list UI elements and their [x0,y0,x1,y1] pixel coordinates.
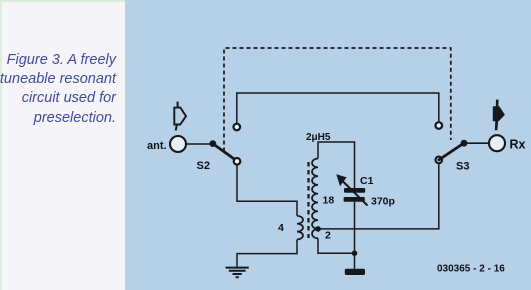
mechanical coupling dashed link S2-S3 [224,48,451,152]
ground (earth) symbol [226,268,249,278]
junction dot C1/secondary/ground [352,250,358,256]
transformer L1 primary winding (4) [297,216,303,240]
svg-text:C1: C1 [360,175,374,187]
svg-text:S3: S3 [456,161,469,173]
wire ant to S2 pole [186,143,211,145]
tap node 2 junction dot [315,226,321,232]
wire tap to S3 contact [320,163,439,229]
svg-text:030365 - 2 - 16: 030365 - 2 - 16 [437,264,505,275]
switch S2 contact to L1 primary [234,158,241,165]
switch S3 lever [439,143,464,160]
transformer L1 core (dashed) [307,162,309,238]
terminal Rx [489,135,505,151]
terminal ant [170,136,186,152]
svg-text:S2: S2 [197,160,210,172]
chassis ground bar [345,269,365,275]
switch S2 lever [213,144,237,161]
transformer L1 secondary winding (18, tap 2) [312,159,318,239]
wire S3 pole to Rx [465,142,489,144]
capacitor C1 adjustment arrow [342,181,368,206]
wire S2 contact down to primary [237,164,297,215]
capacitor C1 variable, bottom plate [344,197,365,202]
switch S2 contact bypass [234,124,241,131]
blue schematic panel background [125,0,531,290]
figure caption [0,51,116,128]
switch S3 upper contact bypass [436,122,443,129]
wire bypass net: S2 upper contact up and across to S3 upper contact [237,93,439,124]
switch S2 pole junction [209,140,216,147]
switch S3 pole junction [461,140,468,147]
input signal arrow (hollow) [174,102,186,131]
svg-text:4: 4 [278,222,284,234]
capacitor C1 variable, top plate [344,188,365,193]
svg-text:2: 2 [325,230,331,242]
wire secondary top to C1 [318,142,355,188]
wire primary bottom to ground [237,240,297,267]
output signal arrow (filled) [493,100,505,131]
svg-text:18: 18 [323,195,335,207]
switch S3 contact to L1 tap [436,157,443,164]
svg-text:Rx: Rx [510,138,526,152]
wire C1 bottom to junction [354,202,356,253]
wire secondary bottom to junction [318,238,355,253]
svg-text:ant.: ant. [147,140,167,152]
wire junction to chassis ground [354,253,356,269]
svg-text:370p: 370p [371,196,395,208]
